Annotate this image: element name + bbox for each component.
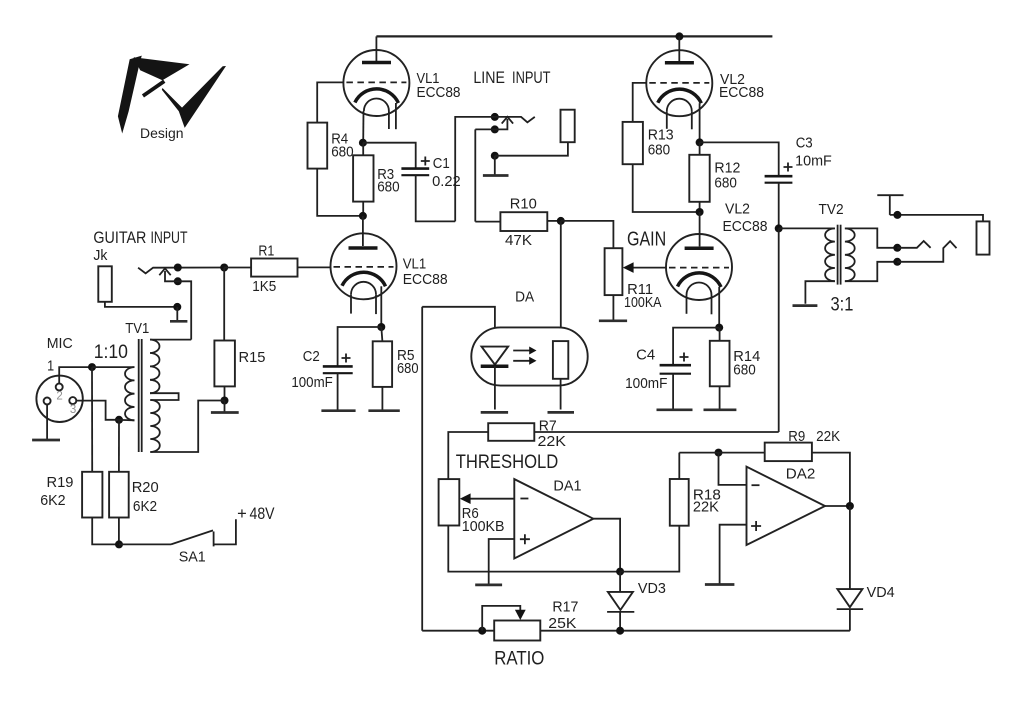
svg-text:680: 680	[733, 362, 756, 379]
node R3 bottom junction	[359, 212, 367, 220]
wire XLR pin2 to TV1 junction	[59, 367, 92, 383]
ground R11	[599, 319, 627, 322]
svg-text:DA1: DA1	[553, 478, 581, 495]
node TV1 primary bottom junction	[115, 416, 123, 424]
svg-text:C1: C1	[433, 155, 450, 172]
wire ratio bottom rail	[422, 630, 850, 632]
svg-text:TV2: TV2	[819, 201, 844, 218]
svg-text:22K: 22K	[693, 499, 719, 516]
resistor R9	[679, 428, 850, 506]
diode VD4	[837, 506, 895, 631]
logo PV	[118, 56, 226, 134]
svg-text:48V: 48V	[250, 505, 275, 523]
wire junction to C1	[363, 143, 416, 169]
svg-text:R1: R1	[258, 242, 274, 259]
ground C2	[321, 409, 355, 412]
capacitor C3	[765, 135, 832, 183]
svg-text:R19: R19	[47, 474, 74, 491]
diode VD3	[607, 572, 666, 631]
jack GUITAR sleeve	[173, 303, 181, 321]
svg-text:C2: C2	[303, 348, 320, 365]
output jack switching contact 2	[893, 241, 956, 266]
op-amp tube VL2 lower (triode)	[666, 212, 732, 328]
svg-text:DA: DA	[515, 289, 534, 306]
jack GUITAR ring contact	[159, 268, 191, 339]
wire R18 bottom link	[620, 526, 679, 572]
node R15 bottom	[221, 397, 229, 405]
svg-text:100mF: 100mF	[291, 374, 332, 391]
svg-text:1: 1	[47, 358, 54, 375]
svg-text:INPUT: INPUT	[151, 229, 188, 247]
svg-text:Design: Design	[140, 125, 184, 141]
svg-text:47K: 47K	[505, 232, 532, 249]
svg-text:1K5: 1K5	[252, 278, 276, 295]
node VD3 bottom	[616, 627, 624, 635]
label GUITAR INPUT	[93, 229, 187, 247]
ground LINE INPUT	[483, 174, 509, 177]
svg-text:ECC88: ECC88	[719, 84, 764, 101]
svg-text:680: 680	[331, 144, 354, 161]
wire VL1 grid to R4	[317, 82, 343, 122]
svg-text:22K: 22K	[538, 433, 567, 450]
ground R14	[704, 408, 737, 411]
svg-text:680: 680	[648, 142, 671, 159]
ground R15	[211, 411, 239, 414]
node DA2 output	[846, 502, 854, 510]
svg-text:680: 680	[714, 175, 737, 192]
resistor R7	[448, 418, 778, 480]
resistor R20	[109, 420, 159, 545]
svg-text:22K: 22K	[816, 428, 840, 445]
svg-text:DA2: DA2	[786, 466, 816, 483]
resistor R1	[224, 242, 330, 294]
svg-text:100KA: 100KA	[624, 294, 662, 311]
svg-text:MIC: MIC	[47, 335, 73, 352]
svg-text:25K: 25K	[548, 615, 576, 632]
node R17 wiper junction	[478, 627, 486, 635]
wire cathode node to C2	[338, 327, 382, 366]
svg-text:680: 680	[377, 179, 400, 196]
ground opto photoresistor	[548, 411, 575, 414]
node C3 TV2 junction	[775, 224, 783, 232]
op-amp tube VL2 upper (triode)	[646, 36, 712, 142]
svg-text:INPUT: INPUT	[512, 69, 551, 87]
resistor R13	[623, 122, 674, 164]
svg-text:GUITAR: GUITAR	[93, 229, 146, 247]
svg-text:1:10: 1:10	[94, 342, 128, 363]
ground TV2 primary	[793, 304, 818, 307]
label +48V	[237, 505, 274, 523]
wire VL2 grid to R13	[633, 83, 647, 122]
resistor R10	[475, 195, 561, 249]
node R10 output	[557, 217, 565, 225]
potentiometer R11	[605, 248, 667, 320]
wire B+ top rail	[376, 35, 772, 37]
op-amp tube VL1 upper (triode)	[343, 36, 409, 142]
svg-text:Jk: Jk	[93, 247, 107, 264]
switch SA1	[119, 519, 236, 565]
node DA1 output	[616, 568, 624, 576]
op-amp DA2	[719, 453, 850, 584]
svg-text:6K2: 6K2	[40, 492, 65, 509]
svg-text:3:1: 3:1	[831, 295, 854, 316]
svg-text:VL1: VL1	[403, 255, 427, 272]
node TV1 primary top junction	[88, 363, 96, 371]
wire R4 bottom to junction	[317, 169, 363, 216]
wire junction to R15	[223, 268, 225, 341]
node B+ rail to VL2 plate junction	[675, 32, 683, 40]
capacitor C4	[625, 347, 691, 410]
ground MIC	[32, 439, 60, 442]
svg-text:THRESHOLD: THRESHOLD	[456, 452, 559, 473]
svg-text:100mF: 100mF	[625, 375, 667, 392]
resistor R18	[670, 453, 721, 526]
node DA2 inverting input	[715, 449, 723, 457]
svg-text:6K2: 6K2	[133, 498, 157, 515]
svg-text:GAIN: GAIN	[627, 229, 666, 251]
wire R15 node to ground	[224, 401, 226, 413]
jack LINE INPUT ring contact	[475, 117, 513, 222]
node R12 top junction	[696, 138, 704, 146]
ground GUITAR	[170, 320, 187, 323]
wire C3 bottom to TV2 node	[778, 183, 780, 229]
svg-text:C3: C3	[796, 135, 813, 152]
resistor R19	[40, 367, 119, 544]
node VL1 cathode	[377, 323, 385, 331]
resistor R14	[710, 328, 761, 410]
svg-text:VD4: VD4	[867, 584, 895, 601]
capacitor C1	[401, 155, 460, 190]
transformer TV1	[92, 339, 225, 452]
node guitar input junction	[220, 264, 228, 272]
svg-text:LINE: LINE	[473, 69, 505, 87]
svg-text:VD3: VD3	[638, 580, 666, 597]
ground DA2	[705, 583, 735, 586]
svg-text:ECC88: ECC88	[417, 84, 461, 101]
output jack plug body	[977, 221, 990, 254]
potentiometer R17	[482, 599, 578, 641]
svg-text:VL2: VL2	[725, 201, 750, 218]
svg-text:R10: R10	[510, 195, 537, 212]
label LINE INPUT	[473, 69, 550, 87]
node R12 bottom junction	[696, 208, 704, 216]
svg-text:+: +	[237, 505, 247, 523]
connector MIC XLR	[36, 376, 82, 422]
jack LINE INPUT sleeve	[491, 110, 575, 175]
svg-text:C4: C4	[636, 347, 655, 364]
svg-text:680: 680	[397, 360, 419, 377]
wire C1 bottom to line-input tip line	[416, 175, 456, 221]
ground C4	[657, 408, 693, 411]
jack GUITAR tip	[138, 264, 224, 274]
transformer TV2	[779, 201, 894, 316]
resistor R4	[308, 123, 354, 169]
svg-text:2: 2	[56, 391, 62, 403]
output jack tip contact	[877, 195, 983, 221]
wire node down to opto	[560, 221, 562, 341]
wire XLR pin3 to TV1 bottom	[76, 401, 115, 420]
wire cathode node to C4	[673, 328, 719, 365]
svg-text:100KB: 100KB	[462, 518, 505, 535]
svg-text:R9: R9	[788, 428, 805, 445]
wire opto LED feed	[422, 307, 495, 346]
jack GUITAR plug body	[98, 266, 177, 307]
resistor R15	[214, 341, 265, 401]
output jack switching contact 1	[893, 241, 930, 252]
svg-text:ECC88: ECC88	[403, 271, 448, 288]
svg-text:R17: R17	[552, 599, 578, 616]
svg-text:10mF: 10mF	[795, 153, 832, 170]
wire control rail left	[421, 307, 423, 631]
potentiometer R6	[439, 479, 620, 571]
node R3 top junction	[359, 139, 367, 147]
svg-text:SA1: SA1	[179, 549, 206, 566]
optocoupler DA	[471, 327, 587, 409]
resistor R12	[689, 142, 740, 212]
svg-text:ECC88: ECC88	[723, 218, 768, 235]
ground opto LED	[481, 411, 508, 414]
wire junction to C3	[700, 142, 779, 175]
wire C3 node down to threshold rail	[778, 228, 780, 432]
node VL2 cathode	[715, 324, 723, 332]
wire node to R11	[561, 221, 614, 248]
svg-text:RATIO: RATIO	[494, 649, 544, 670]
wire R13 bottom to junction	[633, 164, 700, 212]
op-amp tube VL1 lower (triode)	[331, 216, 397, 327]
jack LINE INPUT tip	[455, 113, 535, 221]
resistor R5	[373, 327, 419, 410]
svg-text:R15: R15	[239, 349, 266, 366]
node phantom junction	[115, 540, 123, 548]
ground DA1	[475, 584, 502, 587]
resistor R3	[353, 143, 400, 216]
svg-text:R20: R20	[132, 479, 159, 496]
svg-text:0.22: 0.22	[432, 173, 461, 190]
op-amp DA1	[489, 478, 620, 585]
capacitor C2	[291, 348, 352, 410]
svg-text:TV1: TV1	[125, 320, 149, 337]
wire XLR pin1 to ground	[46, 405, 48, 440]
ground R5	[368, 409, 399, 412]
svg-text:3: 3	[70, 404, 76, 416]
